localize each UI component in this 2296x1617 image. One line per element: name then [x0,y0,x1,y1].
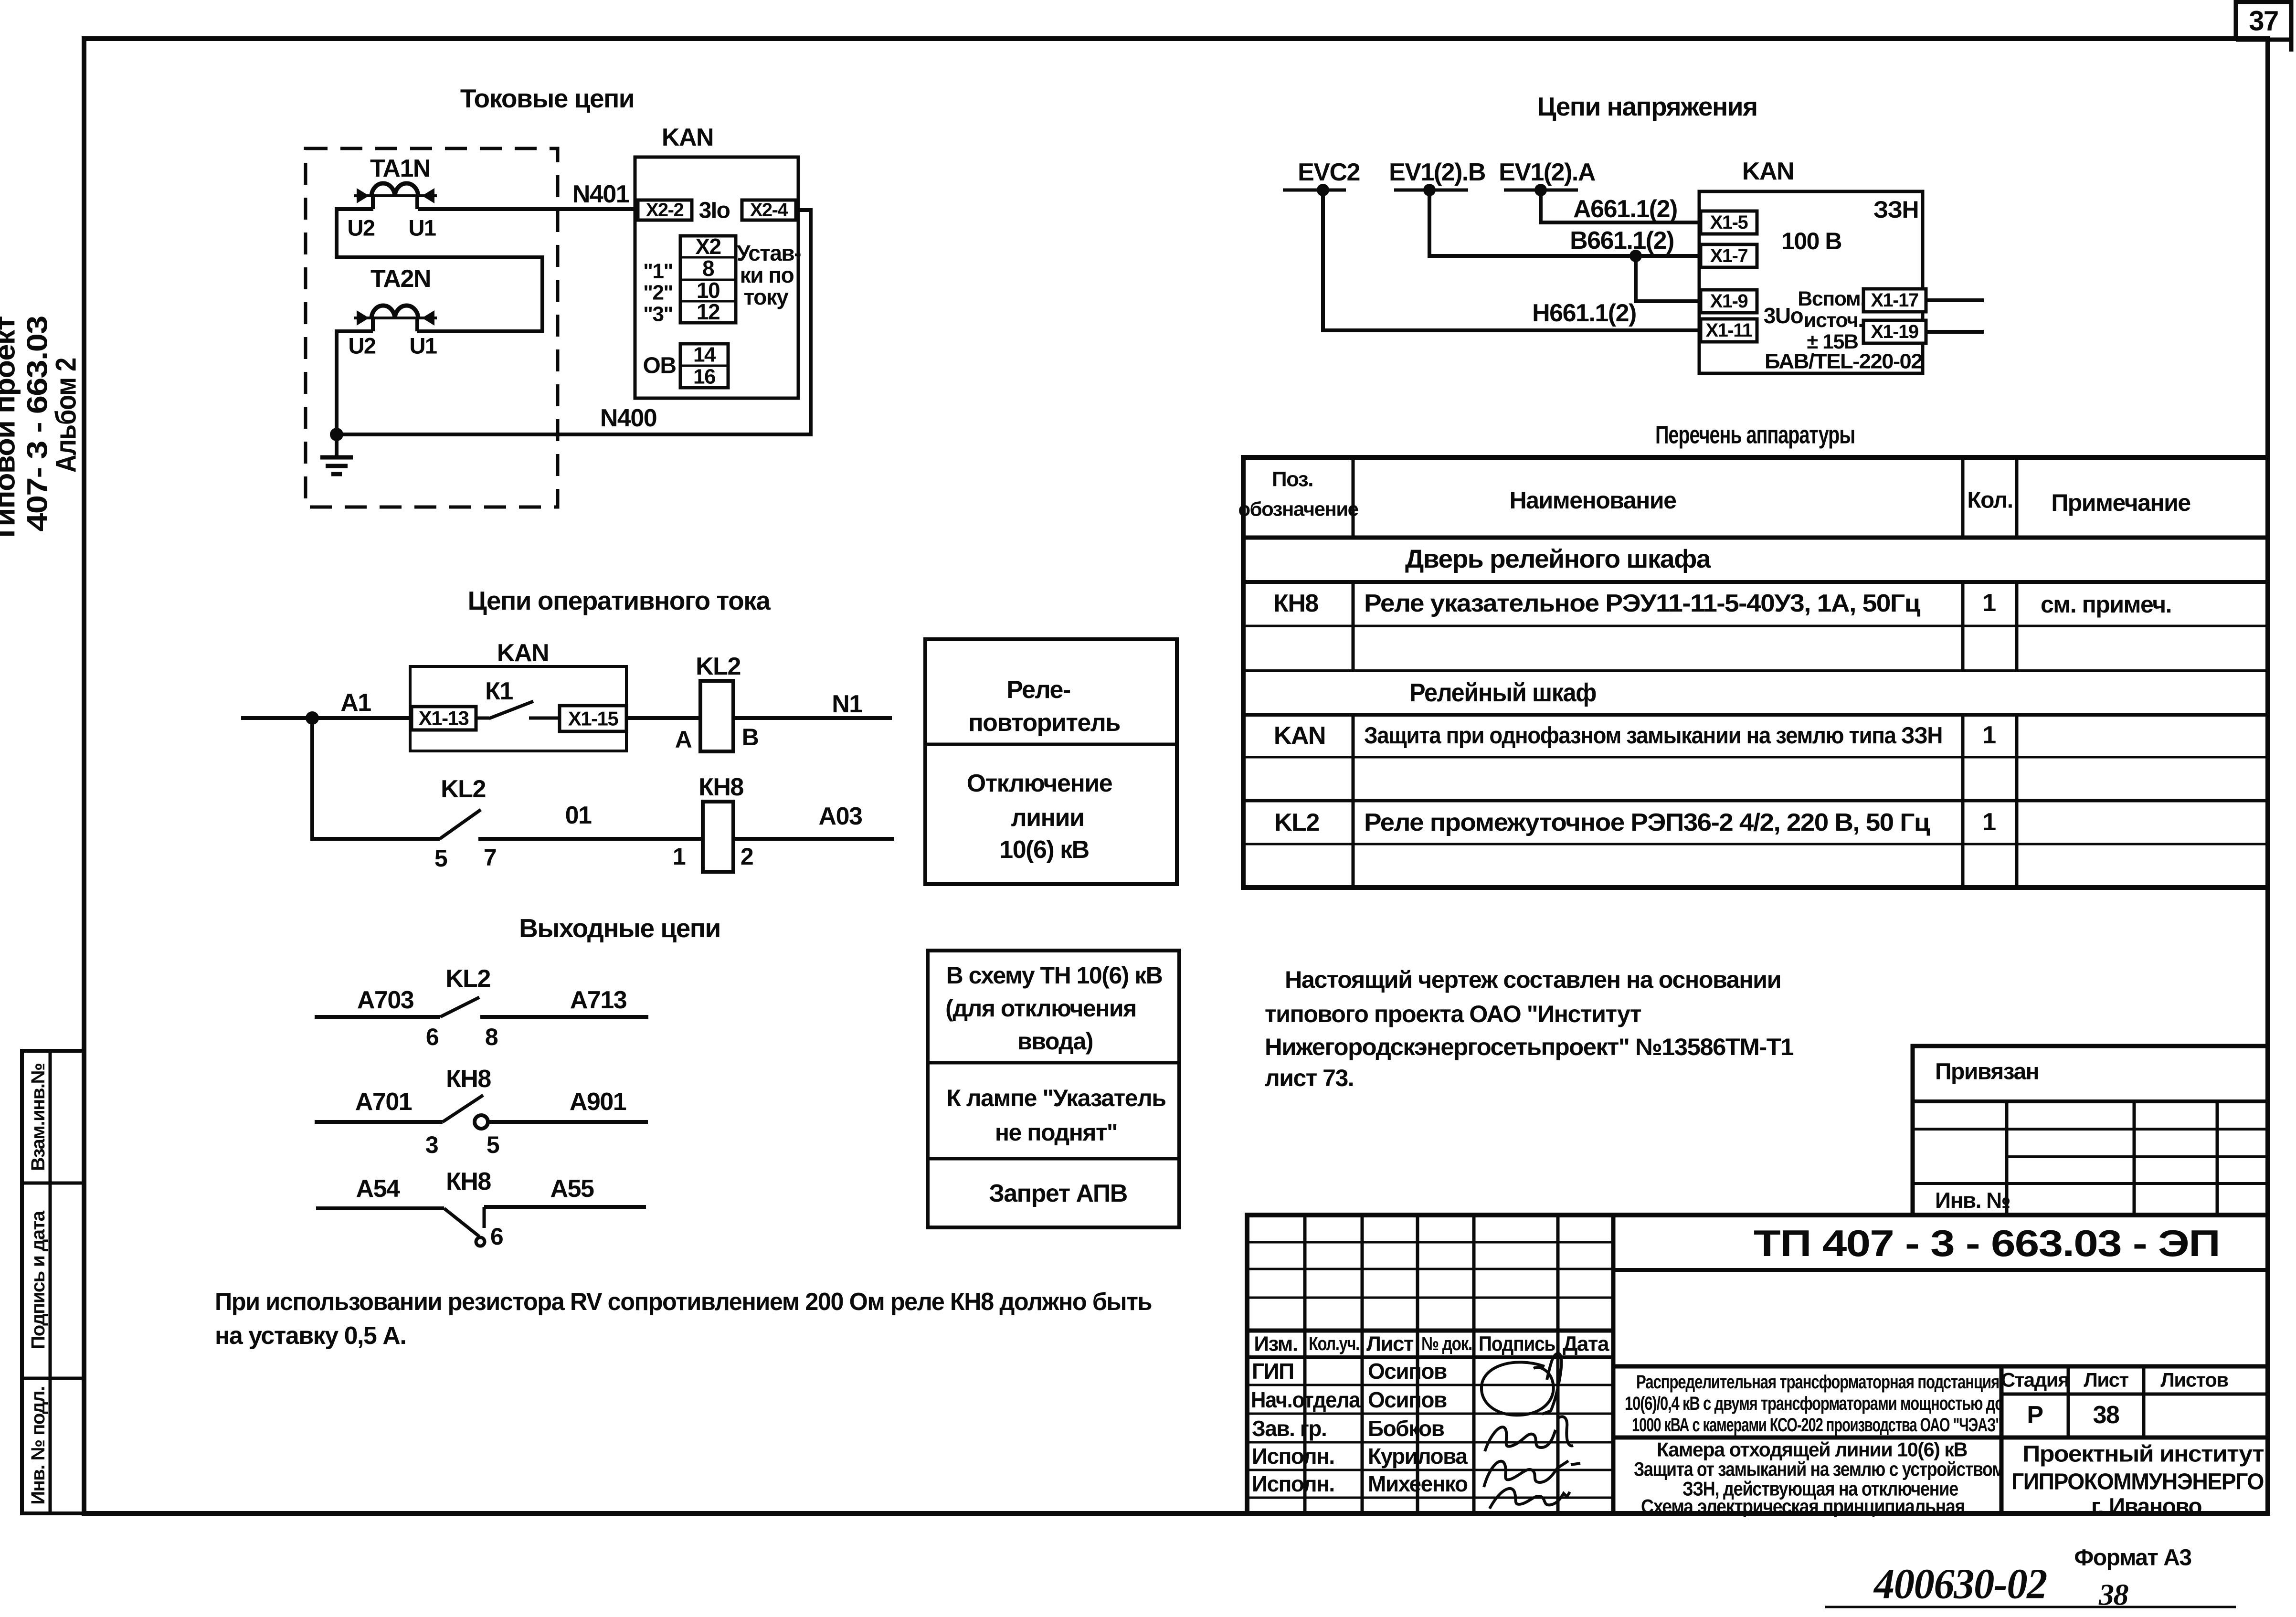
svg-text:3: 3 [425,1131,438,1158]
setting position labels [643,260,673,326]
svg-text:Зав. гр.: Зав. гр. [1252,1416,1326,1441]
svg-text:БАВ/TEL-220-02: БАВ/TEL-220-02 [1765,350,1922,373]
svg-text:ввода): ввода) [1017,1028,1093,1055]
pin label 3Io [699,198,730,223]
svg-text:В661.1(2): В661.1(2) [1570,227,1674,254]
svg-text:А03: А03 [819,803,862,830]
wire TA2N.U2 down to earth node [337,331,373,434]
svg-text:Х1-13: Х1-13 [419,707,469,729]
svg-text:Защита при однофазном замыкани: Защита при однофазном замыкании на землю… [1364,723,1942,749]
drawing basis paragraph [1265,966,1794,1091]
svg-text:При использовании резистора RV: При использовании резистора RV сопротивл… [215,1288,1152,1316]
wire H661.1(2) EVC2 to X1-11 [1323,190,1701,330]
svg-text:KL2: KL2 [696,653,741,680]
relay KAN (current input block) [635,124,798,398]
svg-text:А1: А1 [340,689,371,717]
svg-text:Настоящий чертеж составлен на: Настоящий чертеж составлен на основании [1285,966,1781,993]
svg-text:37: 37 [2249,6,2278,37]
svg-text:Михеенко: Михеенко [1368,1471,1468,1496]
svg-text:КН8: КН8 [698,773,743,801]
svg-text:Х1-9: Х1-9 [1710,291,1748,312]
svg-text:ки по: ки по [740,263,794,287]
wire 01 [478,802,703,839]
svg-text:12: 12 [697,299,719,324]
svg-text:К лампе "Указатель: К лампе "Указатель [946,1085,1165,1111]
svg-text:"3": "3" [643,303,673,326]
svg-text:(для отключения: (для отключения [945,995,1136,1022]
svg-text:ОВ: ОВ [643,353,676,379]
svg-text:Защита от замыканий на землю с: Защита от замыканий на землю с устройств… [1634,1458,2004,1480]
svg-text:Нач.отдела: Нач.отдела [1251,1387,1361,1412]
wire A703 [315,986,440,1017]
setting note text [737,241,801,309]
svg-text:Примечание: Примечание [2051,489,2190,516]
relay coil KL2 [675,653,759,753]
junction node on B661 [1629,250,1642,262]
svg-text:ГИПРОКОММУНЭНЕРГО: ГИПРОКОММУНЭНЕРГО [2011,1469,2264,1495]
svg-text:Исполн.: Исполн. [1252,1471,1334,1496]
table row KAN [1274,721,1996,750]
svg-text:Бобков: Бобков [1368,1416,1444,1441]
function box: repeater relay / line trip [925,639,1177,884]
svg-text:Х2-4: Х2-4 [750,200,789,221]
signature scribble 2 [1485,1416,1573,1451]
current setting links table X2 [680,234,736,324]
junction node A1 [306,711,319,725]
wire from X1-19 [1926,330,1984,334]
svg-text:А: А [675,726,692,753]
svg-text:U2: U2 [348,333,375,359]
svg-text:повторитель: повторитель [968,709,1120,737]
svg-text:3Uо: 3Uо [1764,303,1803,328]
svg-text:ГИП: ГИП [1252,1359,1294,1384]
svg-text:2: 2 [741,843,753,870]
terminal X1-15 [560,706,626,731]
svg-text:Н661.1(2): Н661.1(2) [1532,299,1636,327]
relay KAN contact housing [410,639,626,751]
svg-text:01: 01 [565,802,592,829]
signature scribble 1 [1481,1353,1562,1415]
svg-text:В: В [742,724,759,750]
svg-text:1: 1 [1982,589,1996,617]
svg-text:на уставку 0,5 А.: на уставку 0,5 А. [215,1322,406,1350]
current transformer TA2N [348,265,437,359]
svg-text:ЗЗН: ЗЗН [1873,196,1918,223]
contact KL2 [434,775,496,872]
wire TA1N.U2 loop to TA2N.U1 [337,209,542,331]
svg-text:Дверь релейного шкафа: Дверь релейного шкафа [1405,545,1712,573]
svg-text:Альбом 2: Альбом 2 [50,358,82,473]
svg-text:Х1-5: Х1-5 [1710,212,1748,233]
wire N1 [733,690,892,718]
wire N401 TA1N.U1 to X2-2 [418,180,638,209]
svg-text:KAN: KAN [497,639,549,667]
svg-text:Лист: Лист [2084,1369,2128,1391]
bus stub EV1(2).A [1499,159,1596,196]
svg-text:6: 6 [426,1024,438,1050]
bus stub EV1(2).B [1389,159,1485,196]
svg-text:Поз.: Поз. [1272,468,1313,491]
svg-text:EV1(2).A: EV1(2).A [1499,159,1596,186]
terminal X1-17 [1863,289,1926,312]
svg-text:"1": "1" [643,260,673,283]
svg-text:16: 16 [693,365,715,389]
wire A901 [488,1088,648,1122]
terminal X1-19 [1863,320,1926,343]
svg-text:Устав-: Устав- [737,241,801,265]
svg-text:Кол.: Кол. [1967,488,2012,513]
sheet number box 37 [2236,0,2291,52]
svg-text:Привязан: Привязан [1935,1059,2039,1085]
svg-text:А713: А713 [570,986,627,1014]
contact K1 [476,677,560,719]
svg-text:А703: А703 [357,986,414,1014]
cubicle dashed boundary [306,148,558,507]
privyazan stamp box [1913,1046,2268,1215]
wire B661.1(2) to X1-7 [1429,190,1701,256]
svg-text:Х1-11: Х1-11 [1705,320,1752,341]
svg-text:5: 5 [434,845,447,872]
wire A701 [315,1088,443,1122]
svg-text:Цепи оперативного тока: Цепи оперативного тока [468,586,771,615]
format note [2074,1545,2191,1571]
svg-text:U1: U1 [409,333,436,359]
svg-text:6: 6 [490,1223,503,1250]
title block document number [1754,1222,2220,1264]
title block signatories [1251,1359,1468,1496]
svg-text:Листов: Листов [2160,1369,2228,1391]
svg-text:10(6)/0,4 кВ с двумя трансформ: 10(6)/0,4 кВ с двумя трансформаторами мо… [1625,1393,2003,1414]
wire branch to X1-9 [1636,256,1701,301]
svg-text:Релейный шкаф: Релейный шкаф [1409,678,1596,707]
note text RV resistor [215,1288,1152,1350]
relay KAN (voltage block ZZN) [1699,158,1923,373]
svg-text:EVC2: EVC2 [1298,159,1360,186]
svg-text:1000 кВА с камерами КСО-202 пр: 1000 кВА с камерами КСО-202 производства… [1632,1415,2001,1436]
svg-text:К1: К1 [485,677,513,705]
svg-text:Дата: Дата [1563,1332,1609,1356]
apparatus list table [1238,421,2268,888]
svg-text:не поднят": не поднят" [995,1119,1117,1146]
terminal X2-2 [638,200,692,221]
svg-text:ТП 407 - 3 - 663.03 - ЭП: ТП 407 - 3 - 663.03 - ЭП [1754,1222,2220,1264]
wire A55 [484,1175,646,1207]
svg-text:Реле промежуточное РЭП36-2 4/2: Реле промежуточное РЭП36-2 4/2, 220 В, 5… [1364,809,1930,836]
section title: current circuits [460,84,634,113]
title block object description [1625,1372,2003,1436]
terminal X2-4 [742,200,796,221]
svg-text:см. примеч.: см. примеч. [2041,591,2171,618]
wire from X1-17 [1926,298,1984,302]
wire N400 earth node to X2-4 [337,210,811,434]
table section row: relay cabinet [1409,678,1596,707]
title block [1247,1215,2268,1513]
svg-text:КН8: КН8 [446,1168,491,1195]
svg-text:Х1-15: Х1-15 [568,708,619,730]
svg-text:Нижегородскэнергосетьпроект" №: Нижегородскэнергосетьпроект" №13586ТМ-Т1 [1265,1034,1794,1060]
table row KL2 [1274,808,1996,836]
svg-text:8: 8 [702,256,714,281]
section title: voltage circuits [1537,92,1757,121]
svg-text:Инв. №: Инв. № [1935,1188,2010,1213]
bus stub EVC2 [1283,159,1360,196]
wire A661.1(2) to X1-5 [1541,190,1701,223]
svg-text:А54: А54 [356,1175,400,1203]
svg-text:KAN: KAN [662,124,713,151]
svg-text:Проектный институт: Проектный институт [2022,1442,2264,1467]
terminal X1-7 [1701,244,1757,267]
svg-text:TA1N: TA1N [370,155,430,182]
svg-text:типового проекта ОАО "Институт: типового проекта ОАО "Институт [1265,1001,1641,1027]
title block sheet name [1634,1438,2004,1518]
current transformer TA1N [347,155,437,241]
svg-text:КН8: КН8 [1273,590,1318,617]
svg-text:"2": "2" [643,281,673,305]
wire branch down from A1 node [312,718,440,839]
section title: output circuits [519,913,720,943]
svg-text:Х1-17: Х1-17 [1871,290,1918,311]
svg-text:1: 1 [673,843,686,870]
svg-text:TA2N: TA2N [370,265,431,293]
svg-text:№ док.: № док. [1421,1333,1472,1354]
wire A713 [480,986,648,1017]
svg-text:Отключение: Отключение [967,770,1112,797]
svg-text:Курилова: Курилова [1368,1444,1468,1469]
svg-text:Цепи напряжения: Цепи напряжения [1537,92,1757,121]
svg-text:лист 73.: лист 73. [1265,1065,1354,1091]
svg-text:источ.: источ. [1804,309,1863,332]
svg-text:Реле указательное РЭУ11-11-5-4: Реле указательное РЭУ11-11-5-40У3, 1А, 5… [1364,590,1921,617]
svg-text:400630-02: 400630-02 [1873,1561,2047,1608]
svg-text:Схема электрическая принципиал: Схема электрическая принципиальная [1641,1495,1965,1518]
terminal X1-11 [1701,319,1757,342]
svg-text:Камера отходящей линии 10(6) к: Камера отходящей линии 10(6) кВ [1657,1438,1967,1461]
title block stage-sheet header [2001,1369,2228,1429]
svg-text:KL2: KL2 [445,965,490,993]
svg-text:Исполн.: Исполн. [1252,1444,1334,1469]
svg-text:8: 8 [485,1024,498,1050]
terminal X1-5 [1701,211,1757,234]
left margin project text [0,316,82,543]
svg-text:7: 7 [484,844,496,871]
function box: output destinations [928,951,1179,1227]
svg-text:Лист: Лист [1366,1332,1414,1356]
svg-text:38: 38 [2093,1401,2119,1429]
svg-text:N401: N401 [572,180,629,208]
svg-text:Подпись и дата: Подпись и дата [28,1210,49,1349]
svg-text:N400: N400 [600,404,656,432]
svg-text:Осипов: Осипов [1368,1387,1447,1412]
contact KH8 output [425,1065,499,1158]
inventory handwriting [1825,1561,2236,1612]
ground [320,434,353,474]
svg-text:KAN: KAN [1274,722,1325,750]
svg-text:Стадия: Стадия [2001,1369,2069,1391]
svg-text:Х1-19: Х1-19 [1871,321,1918,342]
svg-text:Х2-2: Х2-2 [646,200,684,221]
left margin stamp boxes [22,1051,84,1513]
svg-text:Формат А3: Формат А3 [2074,1545,2191,1571]
svg-text:Выходные цепи: Выходные цепи [519,913,720,943]
svg-text:В схему ТН 10(6) кВ: В схему ТН 10(6) кВ [946,962,1163,989]
svg-text:KL2: KL2 [1274,809,1319,836]
svg-text:U2: U2 [347,215,374,241]
svg-text:Токовые цепи: Токовые цепи [460,84,634,113]
svg-text:EV1(2).B: EV1(2).B [1389,159,1485,186]
operative blocking links OB [643,343,729,389]
wire A03 [733,803,894,839]
title block institute [2011,1442,2264,1520]
junction node earth point [330,428,343,441]
svg-text:А661.1(2): А661.1(2) [1573,195,1677,223]
svg-text:Осипов: Осипов [1368,1359,1447,1384]
svg-text:линии: линии [1011,804,1084,832]
svg-text:Подпись: Подпись [1479,1332,1555,1356]
svg-text:Запрет АПВ: Запрет АПВ [989,1180,1127,1207]
svg-text:100 В: 100 В [1781,228,1841,254]
contact KL2 output [426,965,498,1050]
svg-text:Типовой проект: Типовой проект [0,317,21,543]
svg-text:Наименование: Наименование [1510,487,1677,514]
svg-text:Реле-: Реле- [1006,676,1070,704]
svg-text:Инв. № подл.: Инв. № подл. [28,1386,49,1504]
svg-text:1: 1 [1982,721,1996,749]
title block header row [1254,1332,1609,1356]
svg-text:407- 3 - 663.03: 407- 3 - 663.03 [21,316,53,531]
svg-text:А901: А901 [570,1088,626,1116]
table section row: relay cabinet door [1405,545,1712,573]
svg-text:Р: Р [2027,1401,2042,1429]
wire A54 [316,1175,444,1208]
svg-text:КН8: КН8 [446,1065,491,1093]
wire to KL2 coil [626,716,700,720]
svg-text:Х2: Х2 [695,234,720,259]
wire A1 [241,689,412,718]
svg-text:14: 14 [693,343,716,367]
svg-text:KAN: KAN [1742,158,1794,185]
relay coil KH8 [673,773,753,872]
svg-text:Распределительная трансформато: Распределительная трансформаторная подст… [1636,1372,1999,1393]
contact KH8 flag [444,1168,503,1250]
svg-text:10(6) кВ: 10(6) кВ [999,836,1089,864]
svg-text:току: току [744,285,789,309]
table row KH8 [1273,589,2171,618]
terminal X1-9 [1701,290,1757,313]
terminal X1-13 [412,707,476,730]
svg-text:А701: А701 [355,1088,412,1116]
svg-text:1: 1 [1982,808,1996,836]
svg-text:Вспом.: Вспом. [1798,287,1865,310]
svg-text:U1: U1 [408,215,435,241]
svg-text:3Iо: 3Iо [699,198,730,223]
svg-text:KL2: KL2 [441,775,486,803]
svg-text:г. Иваново: г. Иваново [2091,1494,2201,1520]
svg-text:Перечень аппаратуры: Перечень аппаратуры [1655,421,1855,449]
svg-text:Взам.инв.№: Взам.инв.№ [28,1063,49,1171]
svg-text:А55: А55 [550,1175,594,1203]
svg-text:Кол.уч.: Кол.уч. [1309,1333,1359,1354]
svg-text:Изм.: Изм. [1254,1332,1297,1356]
svg-text:5: 5 [487,1131,499,1158]
svg-text:N1: N1 [832,690,862,718]
svg-text:обозначение: обозначение [1238,498,1358,520]
signature scribble 3 [1484,1461,1580,1509]
svg-text:Х1-7: Х1-7 [1710,245,1748,266]
section title: operative current circuits [468,586,771,615]
